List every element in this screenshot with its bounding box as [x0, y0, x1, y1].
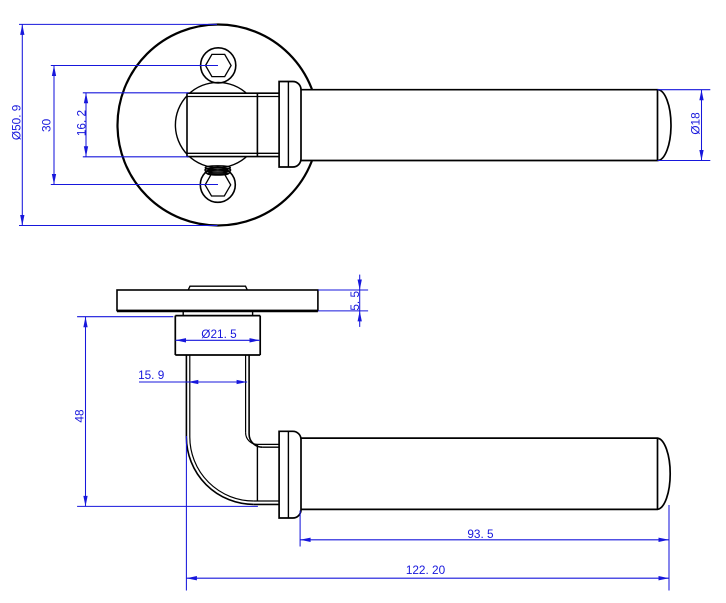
svg-text:16. 2: 16. 2 [75, 110, 89, 136]
svg-text:48: 48 [73, 409, 87, 423]
svg-text:122. 20: 122. 20 [406, 563, 446, 577]
svg-text:Ø21. 5: Ø21. 5 [201, 327, 237, 341]
svg-text:93. 5: 93. 5 [467, 527, 494, 541]
svg-text:Ø18: Ø18 [689, 112, 703, 135]
svg-text:15. 9: 15. 9 [138, 368, 164, 382]
svg-text:30: 30 [40, 118, 54, 132]
svg-text:5. 5: 5. 5 [348, 291, 362, 311]
svg-text:Ø50. 9: Ø50. 9 [10, 105, 24, 140]
